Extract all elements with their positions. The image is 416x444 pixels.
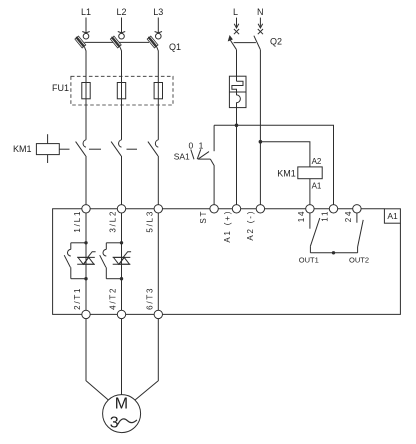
svg-text:OUT2: OUT2 xyxy=(349,255,369,264)
KM1 linkage xyxy=(59,148,69,150)
svg-text:11: 11 xyxy=(321,210,330,222)
terminal 5/L3 xyxy=(154,205,162,213)
terminal 11 xyxy=(329,205,337,213)
fuse FU1-1 xyxy=(85,83,87,140)
terminal tick L3 xyxy=(155,32,162,33)
bypass contact phase 2 xyxy=(100,243,122,279)
junction dots phase 1 xyxy=(84,241,87,244)
wire phase1 in box xyxy=(85,213,87,310)
soft starter box xyxy=(53,209,401,315)
svg-text:L: L xyxy=(233,7,238,17)
wire releases to A1(+) xyxy=(236,102,238,204)
terminal tick L2 xyxy=(118,32,125,33)
svg-text:14: 14 xyxy=(297,210,306,223)
arrow N xyxy=(259,18,261,27)
wire phase3 in box xyxy=(157,213,159,310)
svg-text:KM1: KM1 xyxy=(277,168,296,178)
fuse FU1-2 xyxy=(121,83,123,140)
designation box A1 xyxy=(384,209,400,223)
junction N/coil xyxy=(259,140,263,144)
svg-text:SA1: SA1 xyxy=(174,152,190,162)
thyristor phase 1 xyxy=(77,252,95,265)
wire L2 drop xyxy=(121,18,123,33)
svg-text:A1: A1 xyxy=(387,211,398,221)
coil KM1 xyxy=(298,167,322,179)
svg-text:3: 3 xyxy=(110,414,119,431)
terminal circle L2 xyxy=(119,33,125,39)
switch SA1 xyxy=(191,149,214,204)
junction L/control xyxy=(235,124,239,128)
svg-text:1/L1: 1/L1 xyxy=(73,210,82,233)
terminal ST xyxy=(210,205,218,213)
terminal circle L1 xyxy=(83,33,89,39)
wire phase2 in box xyxy=(121,213,123,310)
wire SA1 fixed xyxy=(213,125,215,151)
terminal 24 xyxy=(353,205,361,213)
svg-text:OUT1: OUT1 xyxy=(299,255,319,264)
terminal 1/L1 xyxy=(82,205,90,213)
wire N down xyxy=(259,50,261,205)
svg-text:1: 1 xyxy=(199,141,204,151)
contact OUT1 xyxy=(310,218,319,253)
svg-text:FU1: FU1 xyxy=(52,83,69,93)
wire 14 in box xyxy=(309,213,311,229)
wire T2 to motor xyxy=(121,319,123,395)
wire out common xyxy=(310,252,357,254)
KM1 contact pole 1 xyxy=(76,140,86,205)
wire N to KM1 coil xyxy=(260,142,310,167)
breaker Q2 pole L xyxy=(229,29,240,50)
svg-text:KM1: KM1 xyxy=(13,144,32,154)
disconnect Q1 pole 2 xyxy=(110,36,121,82)
svg-text:L2: L2 xyxy=(116,7,126,17)
motor M 3ph xyxy=(103,395,141,433)
wire T3 to motor xyxy=(135,319,158,400)
terminal 4/T2 xyxy=(117,310,125,318)
control bus wire xyxy=(214,125,333,204)
svg-text:A2 (-): A2 (-) xyxy=(246,210,255,241)
junction dots phase 2 xyxy=(120,241,123,244)
disconnect Q1 pole 3 xyxy=(147,36,158,82)
disconnect Q1 pole 1 xyxy=(75,36,86,82)
wire L1 drop xyxy=(85,18,87,33)
svg-text:M: M xyxy=(115,395,128,412)
breaker Q2 linkage xyxy=(234,42,256,44)
svg-text:0: 0 xyxy=(189,141,194,151)
svg-text:Q2: Q2 xyxy=(270,36,282,46)
svg-text:A1: A1 xyxy=(312,182,322,191)
terminal circle L3 xyxy=(156,33,162,39)
wire T1 to motor xyxy=(86,319,108,400)
svg-text:A2: A2 xyxy=(312,157,322,166)
svg-text:N: N xyxy=(257,7,264,17)
KM1 contact pole 2 xyxy=(111,140,121,205)
fuse FU1-3 xyxy=(157,83,159,140)
svg-text:5/L3: 5/L3 xyxy=(145,210,154,233)
terminal A1(+) xyxy=(232,205,240,213)
terminal tick L1 xyxy=(82,32,89,33)
svg-text:L3: L3 xyxy=(153,7,163,17)
wire 24 in box xyxy=(356,213,358,223)
contact OUT2 xyxy=(358,220,364,253)
svg-text:4/T2: 4/T2 xyxy=(109,287,118,310)
terminal A2(-) xyxy=(256,205,264,213)
svg-text:24: 24 xyxy=(344,210,353,223)
wire L to releases xyxy=(236,50,238,81)
arrow L xyxy=(236,18,238,27)
svg-text:Q1: Q1 xyxy=(169,42,181,52)
junction out common xyxy=(332,251,335,254)
terminal 2/T1 xyxy=(82,310,90,318)
contactor KM1 coil (left mirror) xyxy=(36,134,59,163)
svg-text:A1 (+): A1 (+) xyxy=(223,210,232,243)
wire coil to 14 xyxy=(309,179,311,205)
svg-text:L1: L1 xyxy=(81,7,91,17)
disconnect Q1 linkage xyxy=(85,41,114,43)
breaker Q2 pole N xyxy=(254,29,263,50)
KM1 contact pole 3 xyxy=(148,140,158,205)
svg-text:2/T1: 2/T1 xyxy=(73,287,82,310)
bypass contact phase 1 xyxy=(64,243,86,279)
terminal 6/T3 xyxy=(154,310,162,318)
wire L3 drop xyxy=(157,18,159,33)
svg-text:6/T3: 6/T3 xyxy=(145,287,154,310)
fuse block FU1 outline xyxy=(71,76,173,105)
svg-text:ST: ST xyxy=(199,210,208,224)
thyristor phase 2 xyxy=(113,252,131,265)
svg-text:3/L2: 3/L2 xyxy=(109,210,118,233)
terminal 14 xyxy=(306,205,314,213)
releases block (thermal + magnetic) xyxy=(229,76,246,107)
terminal 3/L2 xyxy=(117,205,125,213)
